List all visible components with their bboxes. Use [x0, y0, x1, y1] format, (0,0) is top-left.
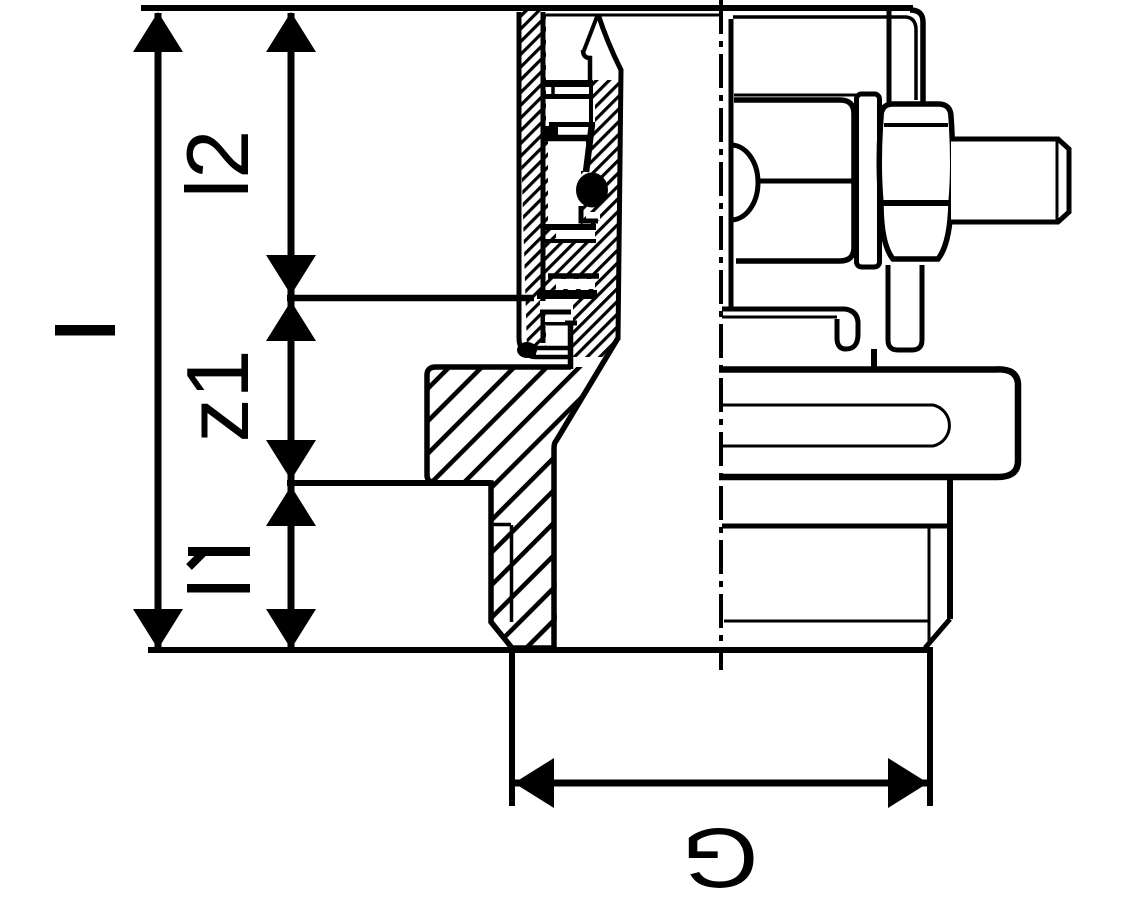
top extension line — [141, 5, 913, 11]
arrowhead G right — [888, 758, 928, 808]
extension line z1/l1 — [287, 480, 491, 486]
G extension line left — [509, 652, 515, 806]
hatched wedge above slope (union nut bottom) — [573, 296, 618, 357]
white seat pocket around ball — [548, 139, 586, 224]
wall inner edge — [541, 12, 546, 343]
svg-text:z1: z1 — [168, 350, 267, 443]
arrowhead l1 bottom — [266, 609, 316, 649]
seat step under ball — [581, 206, 598, 221]
stem boss bump — [731, 145, 758, 220]
label l1 (rotated) — [188, 547, 250, 556]
hook line — [540, 310, 571, 315]
lower body slope and right/bottom outline — [427, 338, 618, 648]
label l (rotated) — [55, 325, 115, 336]
ledge line 1 — [544, 80, 593, 87]
arrowhead l top — [133, 12, 183, 52]
dimension line l2/z1/l1 — [288, 13, 295, 648]
ledge above ring — [546, 321, 577, 326]
white groove between ledges 1-2 — [546, 87, 593, 94]
white pocket between ledges 2-3 — [546, 99, 595, 122]
arrowhead l1 top — [266, 486, 316, 526]
white notch above hook line — [540, 301, 570, 310]
white notch right of seat step — [586, 212, 600, 220]
arrowhead z1 top — [266, 301, 316, 341]
bottom edge / extension line — [148, 647, 933, 653]
white wedge between step and slope — [573, 359, 604, 367]
G dimension line — [512, 780, 930, 787]
bonnet left edge on centerline — [729, 19, 734, 308]
centerline — [719, 0, 723, 670]
thread root step left — [491, 523, 511, 527]
band — [719, 369, 1018, 477]
cone right edge — [598, 14, 621, 340]
nut chamfer line lower — [883, 200, 949, 206]
stud end chamfer line — [1056, 141, 1059, 220]
O-ring ball — [576, 173, 608, 208]
hex nut outline — [879, 104, 953, 259]
ledge line 7 — [548, 273, 599, 279]
washer — [857, 94, 880, 267]
thread start line — [722, 524, 947, 529]
thread root line right — [928, 526, 931, 643]
svg-text:l2: l2 — [168, 130, 267, 199]
lower body block top/left outline — [427, 367, 571, 475]
white groove under ledge 7 — [556, 279, 595, 289]
nut chamfer line upper — [884, 123, 948, 127]
thread runout line — [724, 620, 929, 623]
G extension line right — [927, 652, 933, 806]
ledge corner block — [543, 126, 558, 141]
thread outer edge right — [947, 478, 953, 619]
white groove under ledge 3 — [558, 127, 590, 135]
arrowhead l bottom — [133, 609, 183, 649]
bonnet right edge — [851, 114, 857, 247]
arrowhead z1 bottom — [266, 440, 316, 480]
stem hook below cone tip — [583, 50, 590, 83]
white groove under ledge 5 — [556, 230, 595, 239]
white notch below hook line — [545, 316, 565, 322]
arrowhead l2 top — [266, 12, 316, 52]
hatched wall upper-left (section) — [517, 10, 546, 350]
bonnet mid line — [757, 179, 854, 184]
step V-line — [568, 322, 574, 369]
wall bottom cap fill — [517, 342, 537, 358]
ledge line 6 — [542, 239, 596, 243]
top face line left — [546, 14, 719, 17]
extension line l2/z1 — [287, 295, 534, 302]
hatched lower-left block (section) — [427, 367, 601, 649]
clip inner line — [722, 316, 837, 319]
arrowhead l2 bottom — [266, 255, 316, 295]
wall outer edge — [519, 12, 536, 354]
mounting clip with hook — [722, 309, 858, 349]
tube lower part — [888, 265, 922, 350]
thread root line left — [510, 525, 514, 622]
ledge line 4 (seat top) — [542, 135, 593, 142]
top face line right — [733, 17, 916, 100]
stub — [871, 349, 877, 368]
bonnet top — [734, 100, 854, 114]
ledge line 2 — [544, 94, 593, 99]
hatched center column (section) — [544, 80, 620, 296]
slot — [719, 405, 949, 446]
top-right body corner and edge — [910, 10, 923, 103]
snap ring — [528, 348, 568, 357]
tube upper left edge — [887, 10, 892, 103]
valve spike (white cone tip) — [583, 14, 598, 53]
dimension line l — [155, 13, 162, 648]
ledge line 5 — [542, 224, 596, 230]
column bottom band — [537, 290, 597, 299]
stem lower part — [586, 124, 592, 172]
bonnet bottom — [736, 247, 854, 261]
arrowhead G left — [514, 758, 554, 808]
ledge notch edge — [551, 87, 555, 94]
ledge line 3 — [549, 122, 595, 127]
svg-text:G: G — [681, 811, 758, 900]
threaded stud outline — [951, 139, 1069, 222]
thread end chamfer — [925, 619, 950, 648]
stem upper section — [589, 84, 593, 124]
